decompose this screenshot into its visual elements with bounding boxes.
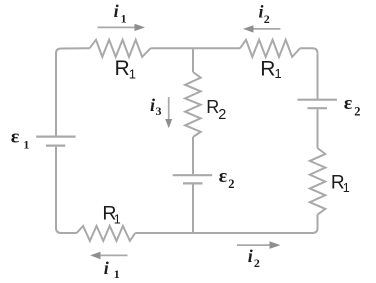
node: bottom junction of middle branch	[135, 232, 193, 234]
svg-text:i: i	[248, 246, 253, 266]
svg-text:i: i	[259, 2, 264, 22]
wire left branch upper	[55, 54, 57, 136]
wire middle branch lower	[192, 185, 194, 234]
svg-text:ε: ε	[344, 93, 353, 114]
svg-text:ε: ε	[11, 127, 20, 148]
battery E1 (left): short plate	[46, 145, 65, 147]
svg-text:2: 2	[218, 107, 226, 123]
current arrow i1 (top)	[97, 24, 145, 31]
wire right branch upper	[317, 53, 319, 98]
svg-text:i: i	[150, 95, 155, 115]
resistor R1 (top left)	[90, 40, 151, 57]
svg-text:2: 2	[254, 256, 260, 270]
svg-text:1: 1	[275, 66, 282, 81]
svg-text:R: R	[206, 97, 219, 117]
battery E2 (right): short plate	[308, 107, 328, 109]
svg-text:ε: ε	[219, 166, 228, 187]
battery E2 (right): long plate	[298, 99, 338, 101]
svg-text:3: 3	[156, 104, 162, 118]
svg-text:i: i	[104, 258, 109, 278]
wire top middle segment	[151, 47, 241, 49]
node: top junction of middle branch / wire middle branch upper stub	[192, 48, 194, 72]
wire bottom right segment	[193, 232, 313, 234]
svg-text:R: R	[115, 57, 130, 80]
wire bottom left corner segment	[56, 228, 77, 233]
wire right branch lower corner	[313, 215, 318, 233]
svg-text:i: i	[114, 1, 119, 21]
battery E2 (middle): long plate	[173, 174, 213, 176]
current arrow i3 (middle, downward)	[165, 97, 172, 128]
resistor R1 (right)	[310, 148, 326, 215]
svg-text:2: 2	[354, 104, 360, 118]
battery E2 (middle): short plate	[183, 182, 203, 184]
svg-text:1: 1	[343, 181, 350, 195]
wire top-left segment	[56, 48, 90, 53]
battery E1 (left): long plate	[36, 136, 75, 138]
resistor R2 (middle)	[185, 72, 201, 137]
svg-text:1: 1	[121, 12, 127, 26]
resistor R1 (top right)	[240, 40, 300, 57]
svg-text:R: R	[260, 58, 275, 81]
wire middle branch between R2 and battery	[192, 137, 194, 174]
svg-text:2: 2	[228, 177, 234, 191]
current arrow i1 (bottom)	[90, 252, 127, 260]
svg-text:1: 1	[114, 267, 120, 281]
svg-text:1: 1	[114, 213, 121, 227]
resistor R1 (bottom)	[77, 226, 136, 241]
wire top-right corner segment	[300, 48, 318, 53]
wire right branch middle	[317, 109, 319, 148]
svg-text:1: 1	[129, 66, 136, 81]
svg-text:2: 2	[264, 12, 270, 26]
svg-text:1: 1	[23, 137, 29, 151]
current arrow i2 (top)	[243, 25, 280, 32]
current arrow i2 (bottom)	[237, 241, 280, 249]
wire left branch lower	[55, 147, 57, 228]
